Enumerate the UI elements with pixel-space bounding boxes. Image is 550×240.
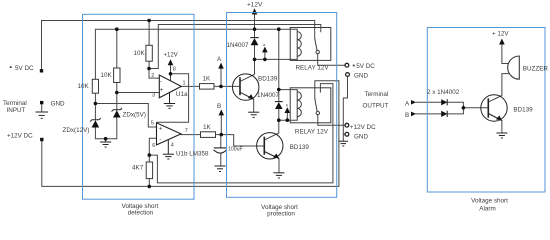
svg-text:U1b LM358: U1b LM358	[176, 151, 209, 158]
wire diode D1 top stem	[254, 29, 256, 37]
ground Q1 emitter	[248, 112, 259, 117]
svg-text:1K: 1K	[203, 124, 212, 131]
wire Q2 emitter to ground	[278, 159, 280, 173]
svg-text:5V DC: 5V DC	[356, 63, 375, 70]
svg-text:2: 2	[151, 73, 154, 79]
svg-text:B: B	[217, 103, 221, 110]
svg-text:+ 12V: + 12V	[492, 31, 509, 38]
block box Voltage short protection	[227, 13, 337, 198]
svg-text:B: B	[405, 112, 409, 119]
wire U1b pin6 sense rail to relay2 contact 2	[149, 84, 333, 183]
wire U1b pin6 to 4K7 node	[149, 138, 156, 155]
relay K2 RELAY 12V box	[290, 88, 331, 123]
wire GND input stem	[41, 105, 43, 112]
output terminal GND lower	[345, 132, 349, 136]
block box Voltage short Alarm	[427, 28, 545, 193]
resistor R4 4K7	[146, 162, 152, 179]
wire U1a pin8 to U1b top	[157, 74, 189, 123]
wire buzzer to Q3 collector	[488, 74, 508, 102]
svg-text:GND: GND	[354, 134, 368, 141]
net arrow a	[262, 47, 268, 53]
svg-text:detection: detection	[128, 210, 154, 217]
wire node R2/ZD2 to U1a pin3	[117, 92, 160, 94]
svg-text:10K: 10K	[78, 83, 90, 90]
svg-text:+12V DC: +12V DC	[7, 133, 33, 140]
svg-text:+12V: +12V	[247, 1, 263, 8]
svg-text:+: +	[159, 125, 163, 132]
svg-text:1K: 1K	[203, 76, 212, 83]
svg-text:1N4007: 1N4007	[227, 42, 250, 49]
op-amp U1b	[157, 123, 182, 145]
resistor R2 10K	[114, 68, 120, 83]
wire summing node to Q3 base	[463, 107, 488, 109]
block box Voltage short detection	[83, 14, 195, 199]
wire net arrow a stem	[264, 52, 266, 59]
wire diode D3 to summing node	[447, 102, 463, 108]
resistor R6 1K	[201, 132, 216, 138]
wire alarm input B to diode D4	[416, 113, 441, 115]
wire capacitor C1 top stem	[220, 135, 222, 148]
alarm input arrow A	[411, 100, 416, 105]
capacitor C1 100uF	[214, 148, 227, 153]
wire U1a output to R5	[181, 85, 199, 87]
svg-text:3: 3	[152, 93, 155, 99]
wire GND output terminal 2 riser to ground	[343, 76, 347, 140]
wire diode D1 bottom stem	[254, 45, 256, 59]
zener diode ZD2 ZDx(5V)	[112, 108, 122, 118]
wire R5 to Q1 base, node A	[214, 85, 240, 87]
wire ground node stem	[105, 139, 107, 142]
ground U1b pin4	[163, 140, 174, 159]
ground Q2 emitter	[273, 173, 284, 178]
diode D2 1N4007	[275, 102, 283, 109]
+12V alarm arrow	[499, 39, 505, 45]
node A arrow	[218, 63, 224, 69]
wire ZD2 anode to ground node	[106, 118, 117, 139]
wire relay2 switch to 12V output terminal	[318, 115, 345, 126]
output terminal GND upper	[346, 73, 350, 77]
wire 4K7 bottom stub	[148, 179, 150, 187]
svg-text:protection: protection	[267, 211, 295, 218]
output terminal +12V DC	[345, 123, 349, 127]
resistor R1 10K	[92, 79, 98, 93]
alarm input arrow B	[411, 112, 416, 117]
op-amp U1a +12V pin8 arrow	[168, 59, 174, 65]
ground Q3 emitter	[496, 133, 507, 138]
ground below zeners	[100, 142, 111, 147]
wire diode D2 column from +12V rail	[278, 29, 280, 101]
transistor Q3 BD139	[481, 95, 507, 121]
resistor R5 1K	[200, 84, 215, 90]
svg-text:OUTPUT: OUTPUT	[363, 103, 389, 110]
svg-text:BD139: BD139	[513, 107, 533, 114]
wire +12V alarm arrow stem to buzzer	[502, 45, 509, 64]
diode D4 1N4002	[441, 111, 447, 117]
wire alarm input A to diode D3	[416, 101, 441, 103]
ground below U1a	[164, 92, 175, 108]
zener diode ZD1 ZDx(12V)	[90, 118, 100, 128]
wire Q1 collector riser	[240, 59, 255, 81]
wire R2 bottom to zener ZD2	[116, 83, 118, 110]
wire R3 top feed	[148, 21, 150, 46]
wire 5V input rail to relay1 contact 1	[42, 21, 315, 71]
wire R3 bottom to U1a pin2	[149, 69, 159, 79]
wire R6 to Q2 base with jog, node B	[216, 135, 265, 146]
svg-text:5: 5	[151, 121, 154, 127]
wire U1a pin2 node to relay1 contact 2	[149, 25, 321, 69]
wire diode D2 bottom stem	[278, 109, 280, 120]
relay K1 RELAY 12V box	[290, 28, 331, 61]
svg-text:4K7: 4K7	[132, 164, 144, 171]
svg-text:6: 6	[152, 143, 155, 149]
input terminal 12V dot	[40, 138, 43, 141]
resistor R3 10K	[146, 45, 152, 61]
svg-text:4: 4	[171, 143, 174, 149]
svg-text:-: -	[160, 79, 162, 86]
svg-text:ZDx(12V): ZDx(12V)	[63, 127, 90, 134]
wire +12V arrow to U1a pin8	[170, 65, 172, 80]
wire node B arrow stem	[220, 115, 222, 134]
wire relay2 coil top line	[279, 89, 297, 91]
wire +12V distribution rail	[95, 29, 297, 79]
svg-text:10K: 10K	[134, 50, 146, 57]
ground output GND terminals	[339, 141, 349, 146]
wire R2 top feed	[116, 29, 118, 68]
wire Q1 emitter to ground	[253, 99, 255, 112]
wire capacitor C1 bottom stem	[220, 154, 222, 166]
svg-text:U1a: U1a	[176, 91, 188, 98]
svg-text:10K: 10K	[101, 72, 113, 79]
svg-text:ZDx(5V): ZDx(5V)	[123, 112, 146, 119]
svg-text:GND: GND	[354, 73, 368, 80]
svg-text:GND: GND	[51, 101, 65, 108]
svg-text:2 x 1N4002: 2 x 1N4002	[427, 89, 460, 96]
svg-text:1N4007: 1N4007	[257, 92, 280, 99]
wire +12V top arrow stem	[254, 14, 256, 29]
+12V top arrow	[252, 8, 258, 14]
wire diode D4 to summing node	[447, 108, 463, 114]
svg-text:BUZZER: BUZZER	[523, 66, 549, 73]
svg-text:RELAY 12V: RELAY 12V	[296, 64, 330, 71]
wire relay1 switch to 5V output terminal	[318, 54, 345, 65]
wire node R1/ZD1 to U1b pin5	[95, 104, 156, 128]
node B arrow	[219, 110, 225, 116]
svg-text:+: +	[160, 87, 164, 94]
input terminal 5V dot	[40, 69, 43, 72]
svg-text:Terminal: Terminal	[3, 100, 27, 107]
net arrow b	[285, 107, 291, 113]
wire node A arrow stem	[220, 69, 222, 87]
transistor Q1 BD139	[233, 74, 259, 100]
wire 4K7 top stub	[148, 155, 150, 162]
svg-text:100uF: 100uF	[228, 147, 243, 153]
op-amp U1a	[159, 75, 181, 98]
wire net arrow b stem	[286, 113, 288, 120]
wire +12V input bottom rail to relay2 contact 1	[42, 81, 339, 187]
ground below capacitor C1	[214, 166, 225, 172]
svg-text:5V DC: 5V DC	[15, 65, 34, 72]
svg-text:Terminal: Terminal	[365, 91, 389, 98]
output terminal 5V DC	[345, 63, 349, 67]
buzzer LS1	[508, 56, 520, 79]
ground GND input terminal	[36, 112, 49, 118]
svg-text:1: 1	[183, 81, 186, 87]
wire GND output terminal 4 stub	[343, 133, 345, 135]
svg-text:BD139: BD139	[258, 76, 278, 83]
transistor Q2 BD139	[257, 133, 283, 159]
svg-text:+12V: +12V	[164, 53, 178, 59]
svg-text:Alarm: Alarm	[479, 206, 495, 213]
input terminal GND dot	[40, 101, 43, 104]
svg-text:RELAY 12V: RELAY 12V	[295, 128, 329, 135]
svg-text:-: -	[159, 137, 161, 144]
svg-text:7: 7	[185, 128, 188, 134]
wire relay1 coil bottom line	[255, 58, 298, 60]
wire Q3 emitter to ground	[501, 121, 503, 133]
wire U1b output to R6	[181, 134, 201, 136]
wire R3 bottom stub	[148, 61, 150, 68]
svg-text:Voltage short: Voltage short	[471, 198, 508, 205]
wire ZD1 anode to ground node	[95, 128, 105, 139]
svg-text:BD139: BD139	[290, 144, 310, 151]
wire Q2 collector riser	[264, 120, 279, 140]
wire R1 bottom to zener ZD1	[94, 93, 96, 120]
wire relay2 coil bottom line	[279, 119, 297, 121]
svg-text:8: 8	[173, 67, 176, 73]
svg-text:+12V DC: +12V DC	[350, 124, 376, 131]
diode D3 1N4002	[441, 99, 447, 105]
diode D1 1N4007	[250, 38, 258, 46]
svg-text:INPUT: INPUT	[7, 107, 26, 114]
